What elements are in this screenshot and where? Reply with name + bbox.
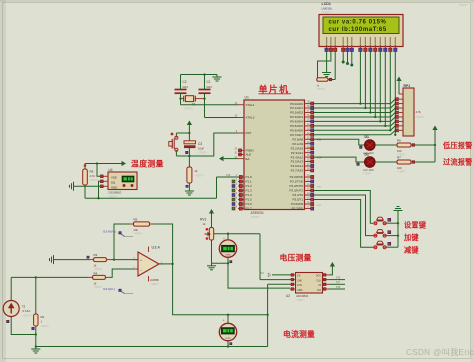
svg-text:LCD1: LCD1 xyxy=(322,2,331,6)
chip U1 P1 pins xyxy=(238,176,244,178)
VCC rail temperature xyxy=(85,163,119,165)
svg-text:DS18B20: DS18B20 xyxy=(109,191,122,195)
svg-text:ADC0832: ADC0832 xyxy=(296,294,309,298)
svg-text:XTAL2: XTAL2 xyxy=(246,116,255,120)
wire P3.4 to key2 xyxy=(314,195,374,236)
svg-text:DI: DI xyxy=(319,284,322,287)
svg-text:CH1: CH1 xyxy=(297,284,302,287)
wire P3.5 to key3 xyxy=(314,200,374,248)
wire cap top rail xyxy=(180,75,182,90)
svg-text:U1: U1 xyxy=(245,96,249,100)
svg-text:P1.1: P1.1 xyxy=(246,180,253,184)
resistor R1 reset pulldown xyxy=(188,148,190,167)
svg-text:<TEXT>: <TEXT> xyxy=(458,3,468,7)
wire reset top rail xyxy=(176,132,189,134)
svg-text:CSDN @叫我Eric: CSDN @叫我Eric xyxy=(406,347,474,357)
svg-text:设置键: 设置键 xyxy=(404,220,427,229)
svg-text:温度测量: 温度测量 xyxy=(131,159,164,169)
voltmeter VM1 xyxy=(227,234,229,240)
RP1 pins xyxy=(399,98,403,100)
wire XTAL1 xyxy=(180,93,182,105)
svg-text:RST: RST xyxy=(246,131,252,135)
svg-text:P3.5/T1: P3.5/T1 xyxy=(292,198,303,202)
svg-text:22pf: 22pf xyxy=(207,85,212,89)
svg-text:P3.6/WR: P3.6/WR xyxy=(291,202,304,206)
svg-text:<TEXT>: <TEXT> xyxy=(90,179,100,182)
svg-text:cur Ib:100maT:65: cur Ib:100maT:65 xyxy=(329,27,387,33)
ground R3 xyxy=(54,259,57,261)
wire U2 CS stub xyxy=(272,274,290,276)
wire P2.4 to D2 xyxy=(314,157,364,162)
svg-text:P2.2/A10: P2.2/A10 xyxy=(291,146,304,150)
wires R6 R7 to VCC xyxy=(411,144,415,146)
svg-text:加键: 加键 xyxy=(403,233,419,242)
svg-text:C1: C1 xyxy=(207,80,211,84)
wire VDD net U4 xyxy=(97,164,100,177)
wire VM1 minus xyxy=(227,257,229,263)
ground U4 xyxy=(76,185,100,187)
svg-text:P3.1/TXD: P3.1/TXD xyxy=(290,180,304,184)
svg-text:EA: EA xyxy=(246,157,250,161)
resistor R8 pullup xyxy=(84,164,86,170)
wires U2 CLK DI DO xyxy=(329,279,345,281)
wire DQ net xyxy=(99,181,101,198)
svg-text:P3.0/RXD: P3.0/RXD xyxy=(290,175,304,179)
svg-text:P1.6: P1.6 xyxy=(246,202,253,206)
svg-text:100: 100 xyxy=(397,149,402,153)
svg-text:P17: P17 xyxy=(336,281,341,284)
svg-text:LM016L: LM016L xyxy=(322,7,333,11)
svg-text:P0.3/AD3: P0.3/AD3 xyxy=(290,115,303,119)
wire CH0 vertical xyxy=(259,234,261,280)
ground keys xyxy=(397,211,399,214)
svg-text:CS: CS xyxy=(297,275,301,278)
svg-text:volts: volts xyxy=(225,336,231,340)
svg-text:P0.4/AD4: P0.4/AD4 xyxy=(290,120,303,124)
svg-text:P1.3: P1.3 xyxy=(246,189,253,193)
LCD LCD1 screen xyxy=(323,17,399,34)
VCC arrow reset xyxy=(187,121,192,126)
push button key2 加 xyxy=(374,235,377,237)
svg-text:4.7k: 4.7k xyxy=(416,110,422,114)
svg-text:<TEXT>: <TEXT> xyxy=(363,172,373,175)
svg-text:CH0: CH0 xyxy=(297,279,302,282)
svg-text:I1: I1 xyxy=(23,305,26,309)
svg-text:<TEXT>: <TEXT> xyxy=(317,88,327,91)
svg-text:R4: R4 xyxy=(94,271,98,275)
svg-text:U4: U4 xyxy=(109,168,113,172)
svg-text:<TEXT>: <TEXT> xyxy=(134,233,144,236)
LCD pin stubs xyxy=(326,45,328,49)
svg-text:0.16A: 0.16A xyxy=(23,309,31,313)
wire R3 to op-amp xyxy=(110,259,138,261)
svg-text:<TEXT>: <TEXT> xyxy=(296,299,306,302)
chip U1 right pins xyxy=(305,103,311,105)
wire VDD xyxy=(318,52,331,80)
svg-text:P0.1/AD1: P0.1/AD1 xyxy=(290,106,303,110)
svg-text:22pf: 22pf xyxy=(183,85,188,89)
ground VM1 xyxy=(211,263,213,266)
wire I1 bottom xyxy=(11,317,36,335)
wire bottom rail xyxy=(35,326,37,347)
chip U1 P1 probe squares xyxy=(232,180,235,183)
svg-text:<TEXT>: <TEXT> xyxy=(198,151,208,154)
svg-text:过流报警: 过流报警 xyxy=(443,158,473,167)
svg-text:P10: P10 xyxy=(226,174,231,177)
svg-text:P3.7/RD: P3.7/RD xyxy=(292,207,304,211)
svg-text:P2.6/A14: P2.6/A14 xyxy=(291,164,304,168)
svg-text:DO: DO xyxy=(317,289,321,292)
wire D2 to R7 xyxy=(375,161,397,163)
svg-text:电压测量: 电压测量 xyxy=(280,252,312,262)
wires P0 bus to RP1 xyxy=(314,103,391,105)
svg-text:U3:A(V+): U3:A(V+) xyxy=(103,229,116,233)
svg-text:C3: C3 xyxy=(198,142,202,146)
wire P3.3 to key1 xyxy=(314,191,373,224)
svg-text:<TEXT>: <TEXT> xyxy=(23,315,33,318)
wire VSS to ground xyxy=(326,52,328,71)
svg-text:24k: 24k xyxy=(134,228,139,232)
LCD pin indicator boxes xyxy=(325,48,328,51)
wire op-amp output xyxy=(159,263,173,265)
svg-text:R7: R7 xyxy=(397,155,401,159)
wire DQ bus to P1.0 xyxy=(84,185,86,198)
svg-text:−: − xyxy=(140,268,142,272)
svg-text:<TEXT>: <TEXT> xyxy=(397,170,407,173)
svg-text:P2.5/A13: P2.5/A13 xyxy=(291,160,304,164)
svg-text:P0.0/AD0: P0.0/AD0 xyxy=(290,102,303,106)
svg-text:D1: D1 xyxy=(365,135,369,139)
svg-text:4.7k: 4.7k xyxy=(90,174,96,178)
svg-text:P2.0/A8: P2.0/A8 xyxy=(292,138,303,142)
svg-text:RV1: RV1 xyxy=(200,218,207,222)
svg-text:VDD: VDD xyxy=(111,175,117,179)
LCD LCD1 body xyxy=(319,15,403,47)
chip U1 left control pins xyxy=(238,104,244,106)
voltmeter VM2 xyxy=(219,323,236,340)
svg-text:P2.4/A12: P2.4/A12 xyxy=(291,155,304,159)
svg-text:+: + xyxy=(223,319,225,323)
svg-text:电流测量: 电流测量 xyxy=(283,329,315,339)
svg-text:P1.2: P1.2 xyxy=(246,184,253,188)
wire R5 right to output xyxy=(154,224,173,264)
svg-text:低压报警: 低压报警 xyxy=(442,141,473,150)
svg-text:R6: R6 xyxy=(397,138,401,142)
svg-text:GND: GND xyxy=(297,289,303,292)
wire D1 to R6 xyxy=(375,144,397,146)
wire VM2 plus xyxy=(227,315,229,324)
svg-text:减键: 减键 xyxy=(404,245,419,254)
svg-text:LED-RED: LED-RED xyxy=(363,169,374,172)
wire E stub xyxy=(351,52,353,66)
ground under VSS xyxy=(326,70,328,73)
U2 pin stubs xyxy=(290,274,296,276)
svg-text:R3: R3 xyxy=(94,253,98,257)
U4 pin stubs xyxy=(104,175,109,177)
wire EA to VCC arrow xyxy=(219,156,224,161)
wire RS stub xyxy=(342,52,344,63)
svg-text:D2: D2 xyxy=(365,153,369,157)
svg-text:P1.0: P1.0 xyxy=(246,175,253,179)
chip U1 right indicator boxes xyxy=(311,102,314,105)
svg-text:<TEXT>: <TEXT> xyxy=(150,283,160,286)
svg-text:CLK: CLK xyxy=(316,279,321,282)
svg-text:P1.5: P1.5 xyxy=(246,198,253,202)
svg-text:P1.4: P1.4 xyxy=(246,193,253,197)
wire U2 VCC xyxy=(329,271,332,275)
wire P2.0 to D1 xyxy=(314,139,364,145)
svg-text:P0.7/AD7: P0.7/AD7 xyxy=(290,133,303,137)
svg-text:P2.3/A11: P2.3/A11 xyxy=(291,151,303,155)
wire CH1 vertical xyxy=(267,284,269,346)
svg-text:100: 100 xyxy=(397,166,402,170)
svg-text:<TEXT>: <TEXT> xyxy=(184,108,194,111)
svg-text:P3.2/INT0: P3.2/INT0 xyxy=(289,184,303,188)
svg-text:P10: P10 xyxy=(260,272,265,275)
wires LCD D0-D7 verticals xyxy=(359,52,361,104)
wire RV1 bottom to ground xyxy=(211,240,213,263)
svg-text:单片机: 单片机 xyxy=(259,83,290,94)
push button key3 减 xyxy=(374,246,377,248)
svg-text:cur va:0.76 015%: cur va:0.76 015% xyxy=(329,20,387,26)
capacitor C3 xyxy=(188,133,190,141)
wire RST net xyxy=(176,133,238,156)
wire XTAL2 xyxy=(204,93,206,117)
svg-text:R2: R2 xyxy=(41,315,45,319)
svg-text:+: + xyxy=(140,258,142,262)
wire R4 to op-amp Vplus xyxy=(109,269,138,277)
push button key1 设置 xyxy=(374,222,377,224)
crystal X1 xyxy=(181,98,184,100)
svg-text:<TEXT>: <TEXT> xyxy=(195,175,205,178)
wire R5 left to Vminus xyxy=(114,224,130,260)
ground bottom rail xyxy=(35,347,37,350)
svg-text:U3:A(V-): U3:A(V-) xyxy=(103,287,115,291)
svg-text:U3:A: U3:A xyxy=(152,246,161,250)
svg-text:<TEXT>: <TEXT> xyxy=(416,116,426,119)
svg-text:GND: GND xyxy=(111,185,117,189)
svg-text:P1.7: P1.7 xyxy=(246,207,253,211)
VCC arrow RV1 xyxy=(209,209,214,214)
RP1 common pin to VCC arrow xyxy=(399,93,403,95)
wire RW stub xyxy=(347,52,349,64)
svg-text:VCC: VCC xyxy=(316,275,321,278)
current source I1 xyxy=(10,277,12,300)
svg-text:AT89C51: AT89C51 xyxy=(251,211,264,215)
wire ground to R3 xyxy=(56,259,90,261)
wire U2 GND net to VM1 minus xyxy=(228,263,290,288)
wire RV1 wiper to CH0 xyxy=(214,233,260,235)
svg-text:P0.6/AD6: P0.6/AD6 xyxy=(290,129,303,133)
reset button xyxy=(175,133,177,138)
svg-text:<TEXT>: <TEXT> xyxy=(251,215,261,219)
svg-text:P15: P15 xyxy=(336,286,341,289)
svg-text:P3.3/INT1: P3.3/INT1 xyxy=(289,189,303,193)
resistor RX contrast 1k xyxy=(317,78,328,81)
svg-text:10uF: 10uF xyxy=(198,146,204,150)
svg-text:RP1: RP1 xyxy=(404,84,411,88)
svg-text:P2.7/A15: P2.7/A15 xyxy=(291,169,304,173)
svg-text:<TEXT>: <TEXT> xyxy=(94,286,104,289)
wire VM2 minus xyxy=(227,341,229,347)
ground reset xyxy=(188,183,190,189)
wire VEE xyxy=(334,52,336,80)
svg-text:LM358: LM358 xyxy=(150,278,159,282)
svg-text:P0.2/AD2: P0.2/AD2 xyxy=(290,111,303,115)
svg-text:P2.1/A9: P2.1/A9 xyxy=(292,142,303,146)
resistor R2 shunt xyxy=(35,277,37,314)
svg-text:P3.4/T0: P3.4/T0 xyxy=(292,193,303,197)
wire output down to current meter xyxy=(173,264,268,315)
chip U2 ADC0832 xyxy=(296,273,323,294)
svg-text:R8: R8 xyxy=(90,170,94,174)
svg-text:U2: U2 xyxy=(286,294,290,298)
VCC arrow U2 xyxy=(330,262,335,267)
ground top rail xyxy=(216,75,218,78)
wires keys to ground xyxy=(386,222,398,224)
svg-text:C2: C2 xyxy=(183,80,187,84)
svg-text:P16: P16 xyxy=(336,277,341,280)
svg-text:R5: R5 xyxy=(134,218,138,222)
svg-text:volts: volts xyxy=(225,253,231,257)
svg-text:P0.5/AD5: P0.5/AD5 xyxy=(290,124,303,128)
wire I1 top rail xyxy=(11,276,88,278)
svg-text:XTAL1: XTAL1 xyxy=(246,103,255,107)
svg-text:<TEXT>: <TEXT> xyxy=(41,325,51,328)
LCD pin name marks xyxy=(326,37,327,44)
